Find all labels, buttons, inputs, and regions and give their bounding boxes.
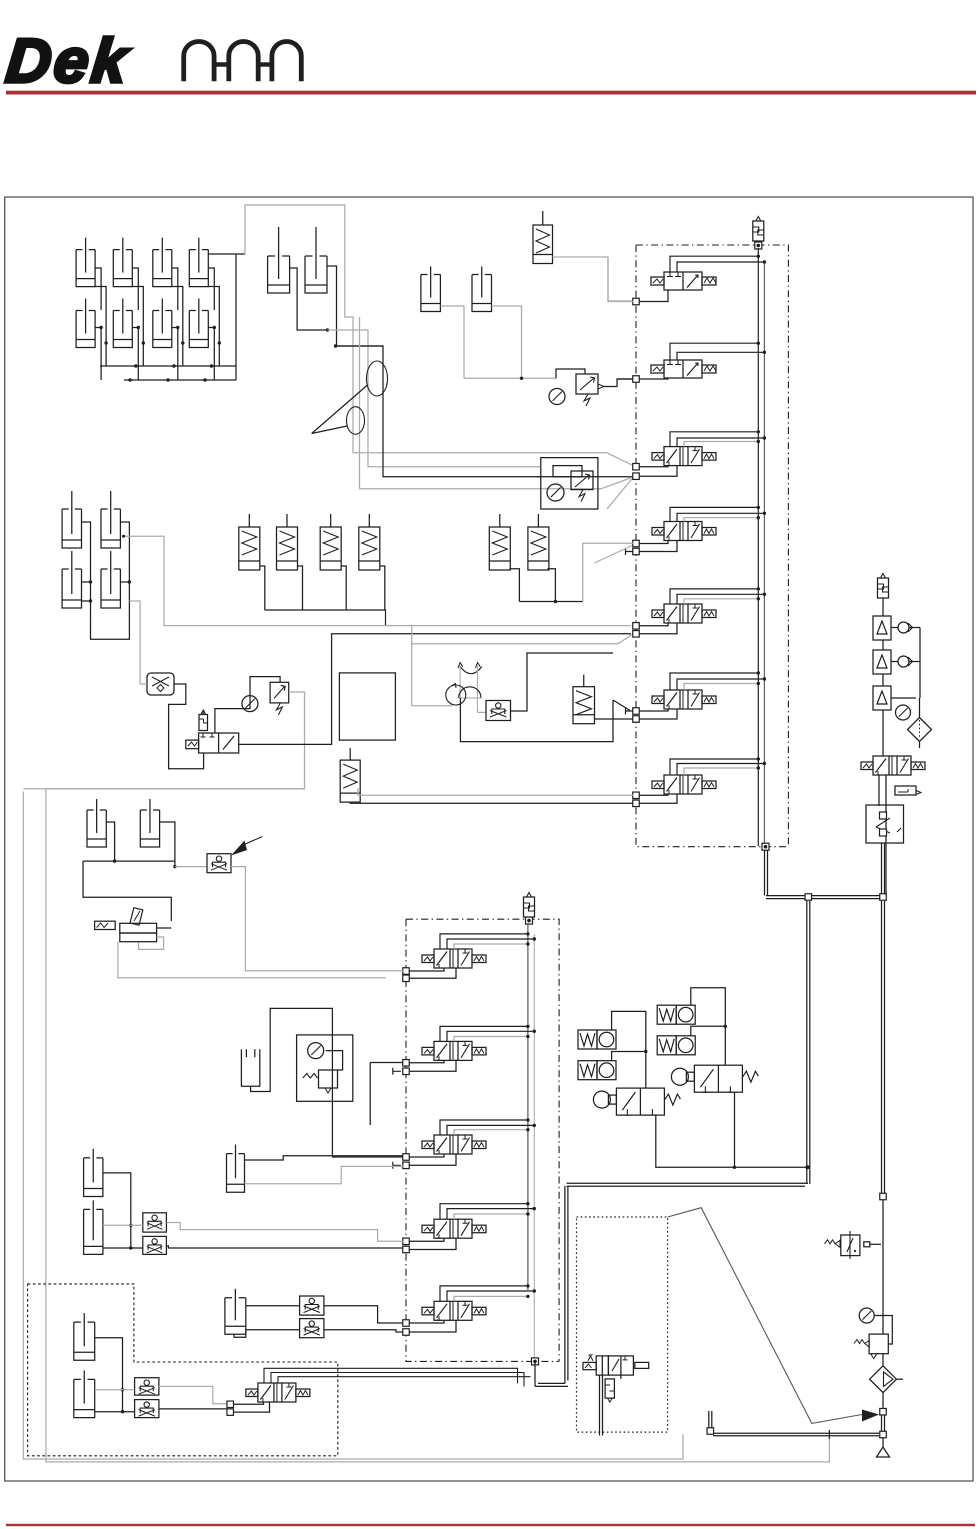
wires valve K bbox=[203, 677, 280, 733]
plug fitting at valve V1.6 bbox=[626, 708, 634, 715]
manifold 1 valve V1.4 port junctions bbox=[633, 540, 677, 555]
camera unit dashed enclosure bbox=[28, 1284, 338, 1456]
svg-text:Dek: Dek bbox=[3, 27, 133, 96]
pressure switch bbox=[825, 1231, 882, 1259]
manifold 1 valve V1.5 port junctions bbox=[633, 623, 677, 638]
regulator with gauge above K bbox=[242, 682, 289, 715]
manifold 2 pressure bus bbox=[528, 923, 539, 1386]
flow control W3 bbox=[300, 1319, 324, 1338]
manifold 1 dash-dot enclosure bbox=[636, 245, 788, 847]
vacuum generator bbox=[446, 663, 482, 713]
manifold 2 valve V2.2 port junctions bbox=[403, 1060, 456, 1075]
wires cylinder grid J bbox=[82, 522, 632, 684]
gray distribution bus to manifold bbox=[245, 205, 633, 509]
filter diamond with auto drain bbox=[908, 718, 932, 742]
cylinder T3 bbox=[227, 1145, 245, 1193]
manifold 1 valve V1.7 bbox=[652, 757, 766, 794]
long leader line to air inlet bbox=[668, 1208, 862, 1424]
manifold 2 valve V2.3 bbox=[422, 1118, 536, 1154]
callout arrow at S1 bbox=[231, 837, 262, 856]
callout ellipses with leader lines bbox=[312, 361, 388, 434]
inlet wire 5 bbox=[882, 1415, 885, 1431]
ball check 2 bbox=[898, 656, 913, 667]
manual valve K bbox=[186, 733, 239, 753]
manifold 1 valve V1.6 port junctions bbox=[633, 708, 677, 723]
supply drop to T junction bbox=[882, 843, 885, 897]
gray link to outer bus bbox=[23, 788, 304, 790]
filter stub bbox=[919, 742, 921, 749]
pilot module under main valve bbox=[895, 786, 921, 795]
feeder regulator bbox=[605, 1379, 614, 1402]
inlet wire 2 bbox=[0, 0, 1, 1]
wires flow control N to manifold bbox=[462, 653, 630, 742]
exhaust triangle bbox=[877, 1447, 890, 1457]
limit valve block D bbox=[657, 1036, 695, 1055]
feeder valve bbox=[583, 1354, 649, 1375]
check unit 2 bbox=[873, 650, 891, 674]
wires vacuum generator bbox=[412, 626, 632, 742]
spring cylinder F2 bbox=[340, 748, 360, 802]
gauge loop bbox=[874, 1316, 892, 1345]
inlet wire 1 bbox=[882, 1200, 884, 1308]
wires from cylinder pair B bbox=[290, 266, 384, 348]
feeds to manifold row 7 bbox=[350, 788, 633, 803]
pilot valve above K bbox=[199, 710, 208, 731]
gray wire S1 to manifold 2 bbox=[231, 867, 403, 971]
limit valve block B bbox=[578, 1061, 616, 1080]
manifold 2 dash-dot enclosure bbox=[406, 919, 559, 1361]
gauge R1 bbox=[896, 705, 911, 720]
manifold 2 valve V2.5 bbox=[422, 1284, 536, 1320]
wires squeegee valve bbox=[118, 928, 386, 978]
feeder dotted enclosure bbox=[577, 1217, 668, 1432]
spring cylinder F3 bbox=[573, 675, 595, 724]
feeder valve drain bbox=[600, 1375, 603, 1435]
main supply shut-off bbox=[878, 574, 889, 599]
stub above junction E bbox=[709, 1411, 712, 1428]
roller valve R2 bbox=[671, 1065, 758, 1092]
manifold 1 valve V1.7 port junctions bbox=[633, 792, 677, 807]
junction sq D bbox=[880, 1431, 887, 1438]
check unit wires bbox=[883, 628, 920, 757]
manifold 2 valve V2.5 port junctions bbox=[403, 1320, 456, 1336]
inlet filter diamond bbox=[870, 1366, 903, 1393]
feeder stub bbox=[620, 1375, 622, 1379]
manifold 1 supply shut-off valve bbox=[753, 217, 764, 250]
squeegee cylinders bbox=[87, 799, 160, 847]
long gray return bus (left loop) bbox=[46, 692, 830, 1462]
check unit 1 bbox=[873, 616, 891, 640]
camera valve wires bbox=[234, 1368, 531, 1412]
manifold 1 valve V1.5 bbox=[652, 587, 766, 623]
cylinder pair B bbox=[268, 227, 327, 293]
buffer spring cylinders row (4x) bbox=[239, 514, 380, 570]
wires flow control F1 bbox=[140, 684, 204, 769]
flow control T2 bbox=[143, 1236, 167, 1254]
wires rail cylinders bbox=[103, 1173, 403, 1250]
inlet gauge bbox=[859, 1308, 874, 1323]
ball check 1 bbox=[898, 622, 913, 633]
manifold 2 valve V2.1 bbox=[422, 932, 536, 968]
junction sq E bbox=[707, 1428, 714, 1435]
spring row manifold wires bbox=[260, 543, 633, 625]
wires to flow box bbox=[879, 775, 886, 898]
manifold 2 supply shut-off bbox=[524, 893, 535, 925]
black bus valve K to manifold bbox=[239, 634, 631, 745]
roller valve R1 bbox=[593, 1088, 680, 1115]
flow control U2 bbox=[135, 1400, 159, 1418]
flow control S1 bbox=[207, 854, 231, 873]
camera valve bbox=[246, 1383, 310, 1402]
manifold 2 valve V2.2 bbox=[422, 1025, 536, 1061]
dual flow control unit bbox=[866, 805, 904, 843]
inlet wire 4 bbox=[882, 1393, 884, 1408]
plug fitting V2.2 bbox=[393, 1068, 401, 1075]
wire P2 to manifold2 bbox=[370, 1063, 403, 1126]
wires camera cylinders bbox=[95, 1338, 228, 1414]
main line valve bbox=[861, 756, 925, 775]
junction sq B bbox=[880, 1193, 887, 1200]
pilot solenoid unit D bbox=[533, 211, 553, 264]
manifold 2 valve V2.1 port junctions bbox=[403, 968, 456, 982]
blank module rectangle bbox=[339, 673, 395, 740]
manifold 2 valve V2.4 bbox=[422, 1202, 536, 1238]
wires P1 bbox=[251, 1008, 403, 1157]
buffer spring cylinders pair (2x) bbox=[489, 514, 549, 570]
rail cylinders pair bbox=[84, 1149, 103, 1255]
plug fitting at valve V1.4 bbox=[626, 548, 634, 555]
air inlet arrow bbox=[862, 1410, 879, 1422]
inlet wire 6 bbox=[882, 1438, 884, 1448]
manifold1 left feed wires bbox=[608, 258, 633, 380]
check unit 3 bbox=[873, 686, 891, 710]
pressure regulator G with gauge bbox=[549, 369, 634, 406]
wire mesh of cylinder grid bbox=[95, 254, 245, 382]
limit valve block C bbox=[657, 1005, 695, 1024]
manifold 1 valve V1.2 bbox=[651, 342, 766, 379]
flow control T1 bbox=[143, 1213, 167, 1232]
cylinder group: print head vacuum cylinders (4x2) bbox=[76, 238, 208, 348]
wire F3 to manifold bbox=[595, 718, 634, 720]
junction sq C bbox=[880, 1408, 887, 1415]
wires cylinder pair C bbox=[440, 306, 556, 380]
flow control U1 bbox=[135, 1378, 159, 1395]
wires cluster W bbox=[234, 1306, 403, 1338]
cylinder pair C bbox=[421, 267, 492, 312]
flow control W2 bbox=[300, 1296, 324, 1315]
manifold 2 valve V2.4 port junctions bbox=[403, 1238, 456, 1253]
inlet manifold line bbox=[713, 1430, 879, 1439]
main distribution tee bbox=[765, 850, 885, 1194]
manifold 1 pressure bus bbox=[721, 248, 769, 850]
gray return bus 2 (outer) bbox=[23, 792, 683, 1459]
cylinder grid J (2x2) bbox=[62, 491, 120, 608]
manifold 1 valve V1.1 bbox=[651, 255, 766, 290]
boxed regulator assembly with gauge bbox=[537, 458, 602, 509]
manifold 1 valve V1.6 bbox=[652, 671, 766, 709]
manifold 1 valve V1.3 bbox=[652, 430, 766, 466]
roller valve drains bbox=[656, 1092, 810, 1169]
return line to manifold 2 bbox=[535, 1183, 808, 1386]
header red rule bbox=[6, 91, 976, 95]
wire from unit D to manifold bbox=[553, 257, 637, 301]
inlet wire 3 bbox=[882, 1308, 884, 1367]
limit block wires bbox=[612, 988, 727, 1088]
wire supply bbox=[882, 598, 884, 616]
footer red rule bbox=[6, 1524, 975, 1526]
cylinder W1 bbox=[225, 1289, 246, 1335]
squeegee pressure valve bbox=[95, 908, 157, 942]
manifold 1 valve V1.4 bbox=[652, 506, 766, 541]
boxed gauge regulator P2 bbox=[297, 1035, 353, 1101]
flow control F1 bbox=[147, 673, 174, 695]
DEK arches icon bbox=[184, 41, 302, 81]
inlet regulator bbox=[854, 1334, 888, 1359]
open cylinder P1 bbox=[241, 1049, 259, 1086]
manifold 1 valve V1.2 port junctions bbox=[633, 376, 668, 383]
manifold 2 valve V2.3 port junctions bbox=[403, 1154, 456, 1169]
flow control N bbox=[486, 701, 511, 721]
DEK logo text bbox=[3, 27, 133, 96]
junction sq A bbox=[805, 894, 886, 901]
camera valve junctions bbox=[227, 1401, 234, 1415]
wires cylinder T3 bbox=[245, 1156, 404, 1184]
camera cylinders bbox=[74, 1313, 95, 1418]
plug fitting V2.3 bbox=[393, 1162, 401, 1169]
manifold 1 valve V1.3 port junctions bbox=[633, 463, 677, 479]
limit valve block A bbox=[578, 1030, 616, 1049]
manifold 1 valve V1.1 port junctions bbox=[633, 290, 668, 305]
wires squeegee cylinders bbox=[83, 822, 207, 921]
